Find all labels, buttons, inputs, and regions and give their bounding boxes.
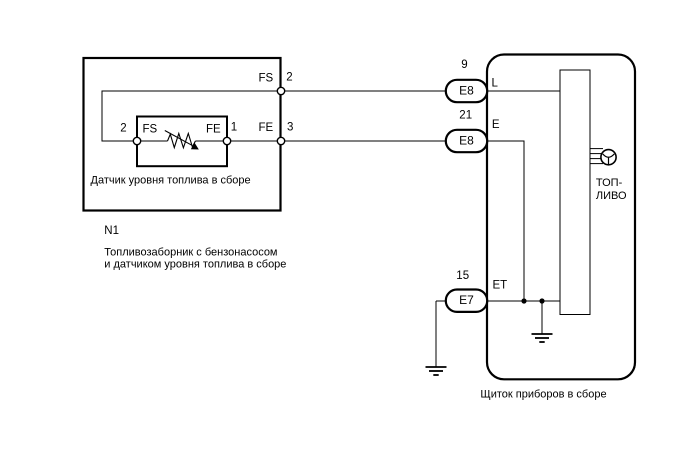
svg-text:1: 1 (231, 122, 237, 134)
svg-text:FE: FE (206, 123, 221, 135)
svg-text:ET: ET (493, 279, 508, 291)
gauge element rectangle (560, 70, 590, 315)
variable resistor zigzag (168, 133, 196, 147)
svg-text:2: 2 (286, 71, 292, 83)
svg-text:15: 15 (456, 270, 469, 282)
wire ET (ground stub through connector E7 to gauge element) (436, 300, 560, 302)
wire FS inner loop (sensor pin 2 to box terminal 2) (102, 91, 281, 141)
svg-text:FS: FS (259, 73, 274, 85)
fuel gauge dial circle (601, 150, 616, 165)
wire resistor lead right (195, 140, 227, 142)
svg-text:E8: E8 (459, 133, 474, 147)
terminal circle box pin 2 (277, 87, 284, 94)
ground symbol internal (532, 334, 553, 342)
svg-text:9: 9 (461, 59, 467, 71)
svg-text:Топливозаборник с бензонасосом: Топливозаборник с бензонасосом (104, 246, 277, 258)
fuel gauge coil lines (590, 149, 603, 164)
variable resistor arrow head (191, 142, 199, 149)
terminal circle sensor pin 1 (223, 137, 230, 144)
wire to internal ground (541, 301, 543, 334)
wire L (connector E8 pin 9 into gauge element) (486, 90, 560, 92)
fuel gauge needle symbol (603, 154, 615, 164)
svg-text:Датчик уровня топлива в сборе: Датчик уровня топлива в сборе (91, 175, 251, 187)
svg-text:21: 21 (459, 110, 472, 122)
junction dot E/ET (521, 298, 526, 303)
svg-text:FE: FE (259, 122, 274, 134)
svg-text:L: L (492, 77, 499, 89)
svg-text:E8: E8 (459, 83, 474, 97)
svg-text:3: 3 (287, 121, 293, 133)
svg-text:2: 2 (120, 123, 126, 135)
svg-text:Щиток приборов в сборе: Щиток приборов в сборе (480, 389, 606, 401)
ground symbol external (426, 367, 447, 375)
svg-text:ЛИВО: ЛИВО (596, 190, 627, 202)
variable resistor arrow line (165, 131, 192, 146)
connector E7 pin 15 (446, 290, 487, 312)
terminal circle box pin 3 (277, 137, 284, 144)
svg-text:E7: E7 (459, 293, 474, 307)
wire FE (sensor pin 1 through box terminal 3 to connector E8 pin 21) (227, 140, 446, 142)
connector E8 pin 9 (446, 80, 487, 102)
instrument panel assembly rounded box (487, 55, 635, 380)
wire E (connector E8 pin 21 down to ET node) (486, 141, 524, 301)
wire FS (box terminal 2 to connector E8 pin 9) (281, 90, 446, 92)
svg-text:N1: N1 (104, 225, 119, 237)
fuel level sensor box (137, 117, 227, 167)
wire to external ground (435, 301, 437, 367)
wire resistor lead left (137, 140, 168, 142)
terminal circle sensor pin 2 (133, 137, 140, 144)
junction dot ground/ET (539, 298, 544, 303)
svg-text:FS: FS (143, 123, 158, 135)
component box N1 (fuel pump assembly outline) (84, 58, 281, 211)
svg-text:и датчиком уровня топлива в сб: и датчиком уровня топлива в сборе (104, 258, 286, 270)
connector E8 pin 21 (446, 130, 487, 152)
svg-text:E: E (492, 119, 500, 131)
svg-text:ТОП-: ТОП- (596, 177, 623, 189)
